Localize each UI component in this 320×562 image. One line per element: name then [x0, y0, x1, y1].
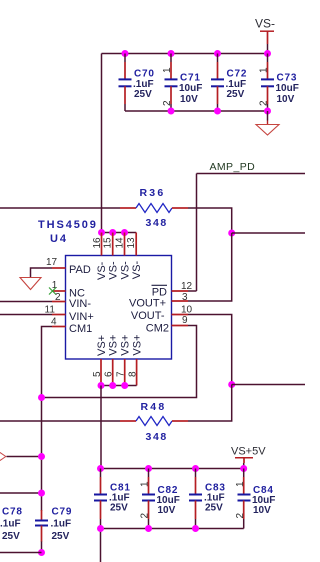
junction C83 top	[192, 465, 199, 472]
junction C81 top	[97, 465, 104, 472]
ground pin17	[20, 278, 41, 290]
svg-text:10uF: 10uF	[276, 83, 299, 94]
wire VOUT- down to R48	[188, 385, 232, 422]
svg-text:.1uF: .1uF	[51, 519, 72, 530]
svg-text:C78: C78	[2, 507, 23, 518]
svg-text:.1uF: .1uF	[0, 519, 21, 530]
wire VIN+ to left edge	[0, 314, 52, 316]
svg-text:C72: C72	[227, 69, 248, 80]
svg-text:THS4509: THS4509	[38, 219, 98, 231]
pin 15	[103, 233, 120, 280]
junction CM node	[38, 394, 45, 401]
wire VS+5V rail	[101, 468, 244, 470]
wire below C81 to edge	[100, 529, 102, 562]
svg-text:7: 7	[116, 371, 127, 377]
junction C73 top / VS-	[264, 50, 271, 57]
svg-text:25V: 25V	[227, 89, 245, 100]
wire VOUT- to output node	[188, 315, 232, 385]
power symbol VS+5V	[231, 446, 266, 464]
capacitor C71	[162, 54, 202, 112]
svg-text:10uF: 10uF	[179, 83, 202, 94]
svg-text:VS+5V: VS+5V	[231, 446, 266, 458]
capacitor C81	[94, 469, 131, 529]
wire VS- left drop to pin16	[101, 54, 103, 233]
svg-text:VS+: VS+	[132, 334, 144, 355]
svg-text:C79: C79	[52, 507, 73, 518]
op-amp U4 THS4509 body	[66, 256, 172, 360]
ground top right	[256, 111, 279, 135]
svg-text:VOUT+: VOUT+	[129, 297, 166, 309]
junction C81 bottom	[97, 525, 104, 532]
junction C70 top	[122, 50, 129, 57]
svg-text:8: 8	[128, 371, 139, 377]
wire off-page to CM column	[7, 456, 42, 458]
power symbol VS-	[255, 17, 275, 45]
svg-text:CM1: CM1	[69, 323, 92, 335]
svg-text:C73: C73	[277, 73, 298, 84]
svg-text:25V: 25V	[205, 503, 223, 514]
pin 17 PAD	[46, 257, 91, 276]
pin 2 VIN-	[52, 292, 91, 310]
wire top bottom rail	[125, 110, 268, 112]
svg-text:AMP_PD: AMP_PD	[210, 161, 256, 173]
svg-text:U4: U4	[50, 233, 68, 245]
svg-text:VS-: VS-	[255, 17, 275, 31]
svg-text:1: 1	[162, 67, 173, 73]
junction C78 top	[38, 490, 45, 497]
junction pin6	[109, 382, 116, 389]
wire VOUT+ to right edge	[232, 232, 305, 234]
svg-text:25V: 25V	[52, 531, 70, 542]
svg-text:15: 15	[103, 237, 114, 249]
capacitor C78 labels	[0, 507, 23, 543]
wire VS+ pins bus	[101, 385, 137, 387]
pin 9 CM2	[146, 315, 188, 335]
svg-text:1: 1	[235, 481, 246, 487]
pin 11 VIN+	[45, 305, 94, 324]
junction C83 bottom	[192, 525, 199, 532]
wire VIN- to left edge	[0, 301, 52, 303]
capacitor C84	[235, 469, 275, 529]
wire R36 right to VOUT+ corner	[188, 208, 232, 233]
wire VS+5V stub	[243, 463, 245, 469]
junction pin5	[98, 382, 105, 389]
svg-text:17: 17	[46, 257, 58, 268]
svg-text:R36: R36	[140, 187, 166, 199]
svg-text:VIN+: VIN+	[69, 311, 94, 323]
wire VS+ down to rail	[100, 386, 102, 469]
junction C79 bottom	[38, 549, 45, 556]
svg-text:16: 16	[92, 237, 103, 249]
svg-text:9: 9	[182, 315, 188, 326]
junction C82 top	[145, 465, 152, 472]
svg-text:348: 348	[146, 217, 168, 229]
junction VOUT+ node	[228, 230, 235, 237]
junction pin16	[98, 229, 105, 236]
off-page connector CM	[0, 453, 6, 461]
capacitor C82	[140, 469, 180, 529]
junction C82 bottom	[145, 525, 152, 532]
pin 4 CM1	[51, 317, 92, 336]
junction C71 top	[168, 50, 175, 57]
junction C72 bottom	[214, 108, 221, 115]
junction C84 top / VS+5V	[240, 465, 247, 472]
capacitor C73	[259, 54, 299, 112]
pin 13	[126, 233, 143, 280]
svg-text:14: 14	[115, 237, 126, 249]
junction VOUT- node	[228, 381, 235, 388]
svg-text:VS+: VS+	[120, 335, 132, 356]
pin 5	[92, 335, 108, 386]
svg-text:25V: 25V	[110, 503, 128, 514]
pin 10 VOUT-	[131, 305, 193, 323]
wire VOUT+ pin riser	[188, 233, 232, 301]
junction pin7	[121, 382, 128, 389]
svg-text:10V: 10V	[253, 505, 271, 516]
pin 3 VOUT+	[129, 292, 188, 309]
junction C73 bottom	[264, 108, 271, 115]
svg-text:6: 6	[104, 371, 115, 377]
wire R48 left to edge	[0, 420, 120, 422]
svg-text:2: 2	[259, 100, 270, 106]
svg-text:C70: C70	[134, 69, 155, 80]
wire CM2 down and across	[42, 326, 197, 398]
svg-text:VS+: VS+	[96, 335, 108, 356]
svg-text:10V: 10V	[277, 94, 295, 105]
svg-text:PAD: PAD	[69, 264, 91, 276]
svg-text:348: 348	[146, 431, 168, 443]
svg-text:25V: 25V	[134, 89, 152, 100]
pin 8	[128, 334, 144, 385]
resistor R36	[120, 187, 188, 229]
pin 6	[104, 335, 120, 386]
svg-text:CM2: CM2	[146, 323, 169, 335]
wire AMP_PD drop to PD pin	[196, 174, 198, 292]
svg-text:1: 1	[259, 67, 270, 73]
pin 1 NC no-connect	[49, 280, 85, 300]
svg-text:10V: 10V	[180, 94, 198, 105]
junction C71 bottom	[168, 108, 175, 115]
capacitor C72	[211, 54, 247, 112]
junction pin14	[121, 229, 128, 236]
svg-text:VS-: VS-	[131, 261, 143, 280]
wire VS- stub	[267, 44, 269, 54]
capacitor C83	[189, 469, 226, 529]
wire VS- pins bus	[102, 232, 137, 234]
svg-text:25V: 25V	[2, 531, 20, 542]
wire C79 bottom rail to edge	[0, 552, 42, 554]
wire R36 left to edge	[0, 207, 120, 209]
wire VOUT- to right edge	[232, 384, 305, 386]
svg-text:R48: R48	[141, 401, 167, 413]
pin 14	[115, 233, 132, 280]
svg-text:5: 5	[92, 371, 103, 377]
wire AMP_PD	[197, 173, 306, 175]
junction C72 top	[214, 50, 221, 57]
wire VS- top rail	[102, 53, 268, 55]
wire C78 top from left edge	[0, 492, 42, 494]
svg-text:10V: 10V	[158, 505, 176, 516]
junction pin15	[109, 229, 116, 236]
svg-text:VS-: VS-	[96, 261, 108, 280]
wire bottom rail	[101, 528, 244, 530]
svg-text:2: 2	[162, 100, 173, 106]
svg-text:C71: C71	[180, 73, 201, 84]
svg-text:VS-: VS-	[108, 261, 120, 280]
capacitor C79	[35, 507, 72, 543]
svg-text:2: 2	[140, 513, 151, 519]
svg-text:VS+: VS+	[108, 335, 120, 356]
svg-text:2: 2	[235, 513, 246, 519]
svg-text:VIN-: VIN-	[69, 298, 91, 310]
wire CM1 down left column	[42, 327, 53, 512]
pin 7	[116, 335, 132, 386]
resistor R48	[120, 401, 188, 443]
svg-text:13: 13	[126, 237, 137, 249]
junction CM offpage	[38, 453, 45, 460]
pin 12 PD	[152, 281, 197, 298]
pin 16	[92, 233, 108, 281]
svg-text:VS-: VS-	[120, 261, 132, 280]
svg-text:VOUT-: VOUT-	[131, 310, 165, 322]
capacitor C70	[119, 54, 155, 112]
wire pin17 to ground	[31, 268, 53, 278]
svg-text:1: 1	[140, 481, 151, 487]
